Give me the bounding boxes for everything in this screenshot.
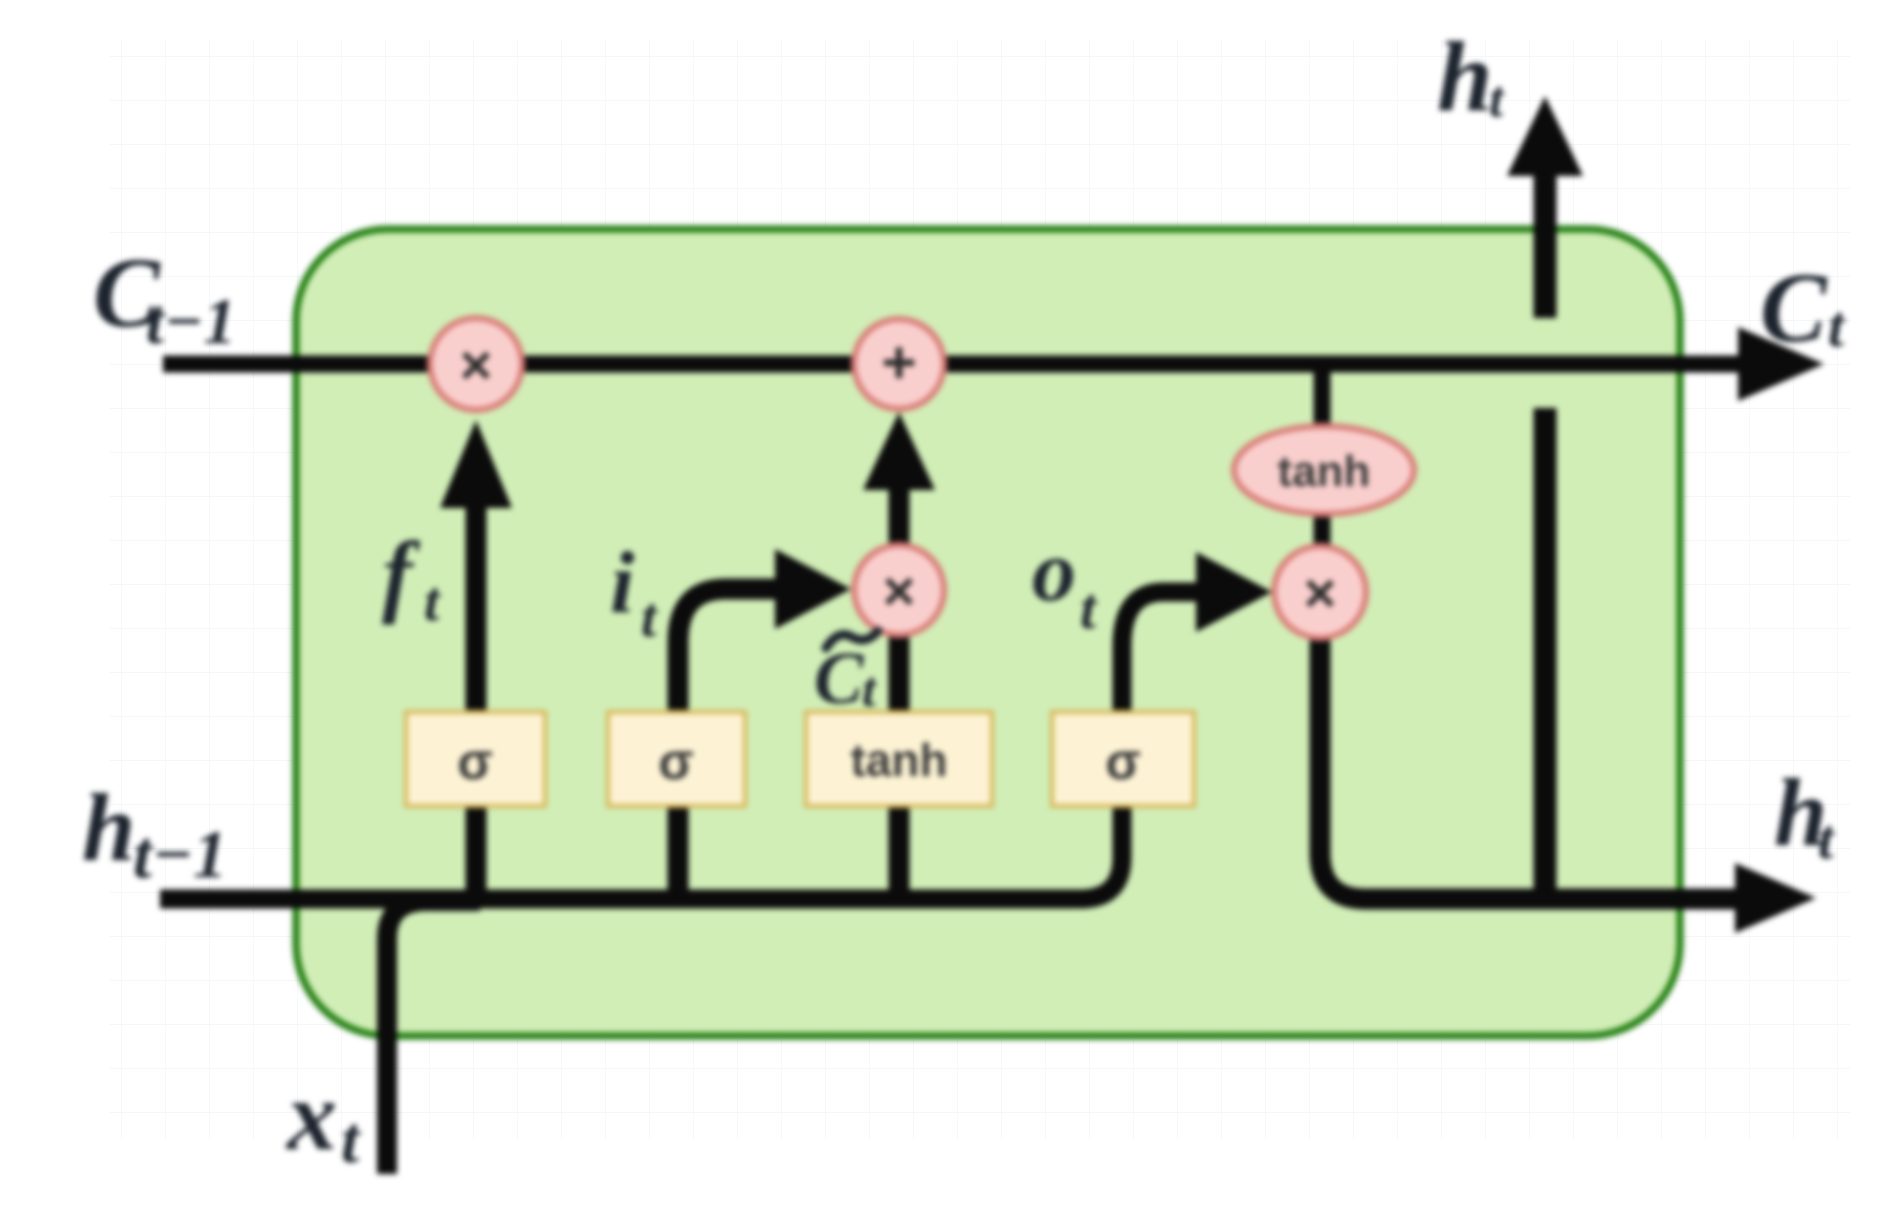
- svg-text:t: t: [862, 661, 878, 717]
- svg-text:σ: σ: [658, 733, 694, 791]
- svg-text:×: ×: [1304, 561, 1337, 624]
- arrowhead C_t: [1738, 327, 1824, 401]
- arrowhead h_t top: [1507, 96, 1583, 176]
- svg-text:t: t: [641, 587, 658, 649]
- wire h line with o_t branch: [160, 592, 1198, 899]
- LSTM cell body: [296, 229, 1680, 1036]
- gate sigma box 2: [608, 712, 745, 806]
- wire cell-state line C: [163, 356, 1740, 373]
- svg-text:t: t: [1080, 576, 1098, 641]
- op multiply circle (forget): [430, 318, 522, 410]
- op tanh ellipse: [1234, 426, 1414, 514]
- svg-text:×: ×: [883, 559, 916, 622]
- wire C to tanh branch: [1314, 368, 1331, 430]
- svg-text:h: h: [82, 774, 135, 881]
- svg-text:C: C: [1760, 252, 1828, 363]
- svg-text:tanh: tanh: [850, 734, 947, 786]
- svg-text:t: t: [1818, 809, 1835, 871]
- arrowhead o_t: [1196, 552, 1272, 632]
- wire f_t branch: [466, 505, 487, 899]
- wire x_t input: [387, 901, 480, 1174]
- svg-text:×: ×: [460, 333, 493, 396]
- svg-text:C: C: [814, 638, 865, 720]
- svg-text:h: h: [1437, 21, 1493, 132]
- svg-text:+: +: [881, 329, 916, 396]
- svg-text:tanh: tanh: [1278, 447, 1371, 496]
- wire tanh to x: [1314, 510, 1331, 552]
- wire x output U to h exit: [1320, 634, 1736, 899]
- op plus circle: [854, 319, 944, 409]
- op multiply circle (output): [1274, 546, 1366, 638]
- arrowhead i_t: [775, 549, 851, 629]
- svg-text:t: t: [424, 571, 441, 633]
- wire C-tilde branch: [889, 634, 910, 899]
- gate sigma box 4: [1052, 712, 1194, 806]
- gate tanh box: [806, 712, 992, 806]
- arrowhead into +: [863, 412, 935, 490]
- svg-text:t: t: [341, 1104, 361, 1177]
- svg-text:σ: σ: [457, 733, 493, 791]
- svg-text:x: x: [285, 1060, 337, 1171]
- arrowhead f_t: [440, 420, 512, 508]
- wire h_t top branch upper segment: [1534, 174, 1557, 318]
- wire i_t branch: [678, 589, 777, 899]
- svg-text:i: i: [610, 535, 635, 632]
- arrowhead h_t right: [1735, 863, 1816, 933]
- svg-text:σ: σ: [1105, 733, 1141, 791]
- svg-text:t−1: t−1: [146, 286, 236, 358]
- gate sigma box 1: [406, 712, 545, 806]
- svg-text:t−1: t−1: [133, 816, 227, 892]
- svg-text:t: t: [1489, 71, 1505, 128]
- wire C-tilde x to +: [889, 488, 910, 546]
- svg-text:o: o: [1032, 523, 1076, 620]
- wire h_t top branch lower segment: [1534, 408, 1557, 899]
- op multiply circle (input): [854, 545, 944, 635]
- svg-text:t: t: [1828, 294, 1846, 359]
